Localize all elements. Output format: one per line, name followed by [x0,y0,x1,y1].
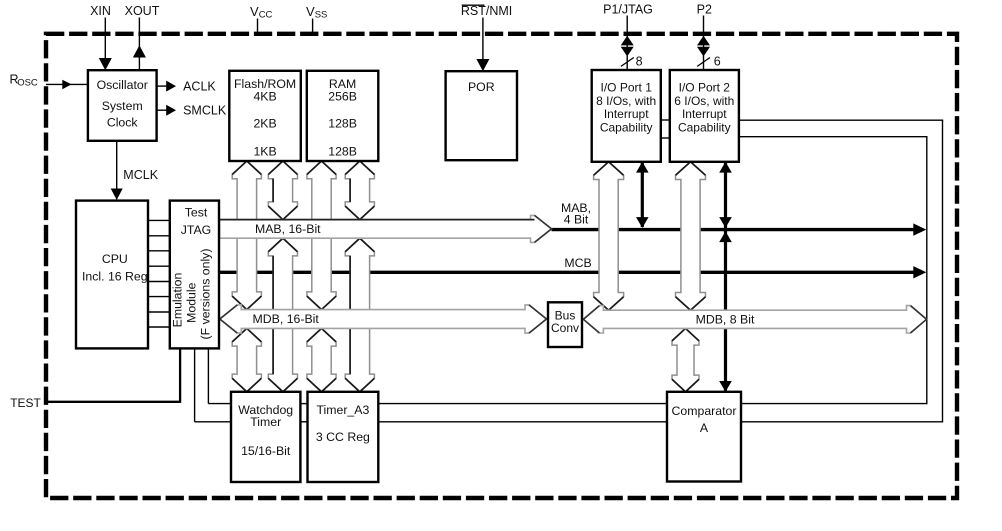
svg-text:4KB: 4KB [253,90,276,104]
Bus Conv block [548,302,582,347]
svg-text:XIN: XIN [90,4,111,18]
bus MDB 16-bit band [220,305,547,333]
svg-text:8 I/Os, with: 8 I/Os, with [596,94,656,108]
oscillator block [88,70,157,141]
svg-text:Emulation: Emulation [171,273,185,328]
svg-text:Capability: Capability [678,120,731,134]
arrow P2 port to comparator [724,163,727,391]
svg-text:256B: 256B [328,90,357,104]
arrow RAM to MAB bus [345,161,374,220]
wire port1-port2 link upper [661,119,670,121]
wire RST/NMI to POR [482,18,484,71]
arrow MDB bus to Timer_A3 [307,328,336,391]
svg-text:SS: SS [315,10,328,21]
CPU block [76,201,148,349]
wire comparator to port 2 (inner loop) [741,403,927,405]
svg-text:V: V [306,4,315,19]
svg-text:2KB: 2KB [253,117,276,131]
arrow Port2 to MDB 8-bit bus [676,162,706,310]
Comparator A block [667,392,741,482]
svg-text:CPU: CPU [102,252,128,266]
svg-text:A: A [700,421,709,435]
svg-text:Comparator: Comparator [672,404,737,418]
svg-text:8: 8 [636,55,643,69]
wire timer to comparator (lower) [378,421,667,423]
svg-text:I/O Port 1: I/O Port 1 [601,81,653,95]
wire VCC stub [257,19,259,33]
arrow MAB bus to Watchdog [268,238,297,392]
bus MAB 16-bit band [220,215,552,242]
svg-text:Interrupt: Interrupt [682,107,727,121]
device outline (dashed border) [46,34,957,498]
svg-text:SMCLK: SMCLK [183,104,227,118]
wire timer to comparator (upper) [378,403,667,405]
wires CPU to Test/JTAG (8 lines) [148,219,170,221]
svg-text:Incl. 16 Reg: Incl. 16 Reg [82,270,148,284]
wire VSS stub [312,19,314,33]
svg-text:MDB, 8 Bit: MDB, 8 Bit [696,313,755,327]
Test/JTAG emulation module block [170,201,219,349]
wire P2 to port 2 [703,16,705,71]
svg-text:System: System [102,99,143,113]
arrow MDB 8-bit bus to Comparator [672,328,699,391]
svg-text:128B: 128B [328,144,357,158]
svg-text:ACLK: ACLK [183,80,216,94]
arrow MAB bus to Timer_A3 [345,238,374,392]
wire emulation to watchdog (upper) [207,348,209,403]
svg-text:3 CC Reg: 3 CC Reg [316,430,370,444]
svg-text:Oscillator: Oscillator [97,78,148,92]
svg-text:I/O Port 2: I/O Port 2 [679,81,731,95]
wire watchdog to timer (upper) [300,403,307,405]
svg-text:MDB, 16-Bit: MDB, 16-Bit [253,312,320,326]
Watchdog Timer block [231,392,300,482]
svg-text:Capability: Capability [600,120,653,134]
I/O Port 1 block [592,70,661,162]
svg-text:TEST: TEST [10,396,41,410]
svg-text:MAB, 16-Bit: MAB, 16-Bit [255,222,321,236]
svg-text:JTAG: JTAG [181,223,212,237]
wire XIN to oscillator [104,18,106,70]
wire comparator to port 2 (outer loop) [741,421,943,423]
svg-text:Clock: Clock [107,115,139,129]
svg-text:POR: POR [468,80,495,94]
bus MCB thick line [220,271,914,274]
svg-text:P2: P2 [697,3,712,17]
arrow MDB bus to Watchdog [232,328,261,391]
svg-text:V: V [250,4,259,19]
svg-text:1KB: 1KB [253,144,276,158]
wire ROSC to oscillator [46,83,88,85]
arrow RAM to MDB bus [307,161,336,310]
svg-text:MCLK: MCLK [123,168,158,182]
svg-text:RST/NMI: RST/NMI [461,4,512,18]
arrow Flash to MAB bus [268,161,297,220]
svg-text:6 I/Os, with: 6 I/Os, with [674,94,734,108]
wire P1/JTAG to port 1 [626,16,628,71]
arrow P1 port to MAB bus [641,163,644,227]
svg-text:4 Bit: 4 Bit [564,213,589,227]
wire MCLK to CPU [116,141,118,199]
svg-text:P1/JTAG: P1/JTAG [603,3,653,17]
svg-text:6: 6 [714,55,721,69]
svg-text:(F versions only): (F versions only) [199,249,213,340]
svg-text:XOUT: XOUT [125,4,160,18]
arrow Port1 to MDB 8-bit bus [594,162,624,310]
svg-text:128B: 128B [328,117,357,131]
svg-text:Test: Test [185,206,208,220]
wire ACLK output [157,85,167,87]
Timer_A3 block [308,392,379,482]
wire watchdog to timer (lower) [300,421,307,423]
bus MDB 8-bit band [583,306,926,333]
svg-text:OSC: OSC [17,78,38,89]
svg-text:Interrupt: Interrupt [604,107,649,121]
bus MAB 16-bit top edge [220,219,535,221]
svg-text:MCB: MCB [564,256,591,270]
bus MAB 4-bit thick line [552,228,914,231]
svg-text:Conv: Conv [551,321,579,335]
svg-text:CC: CC [259,10,273,21]
svg-text:Module: Module [185,282,199,322]
POR block [446,71,517,160]
svg-text:Timer: Timer [250,415,281,429]
wire SMCLK output [157,109,167,111]
wire emulation to watchdog (lower) [194,348,196,421]
wire TEST to emulation module [47,401,180,403]
RAM block [307,71,379,161]
svg-text:15/16-Bit: 15/16-Bit [241,444,291,458]
wire oscillator to XOUT [138,18,140,71]
svg-text:Timer_A3: Timer_A3 [316,403,369,417]
arrow Flash to MDB bus [232,161,261,310]
I/O Port 2 block [670,70,739,162]
wire port1-port2 link lower [661,137,670,139]
Flash/ROM block [229,71,300,161]
